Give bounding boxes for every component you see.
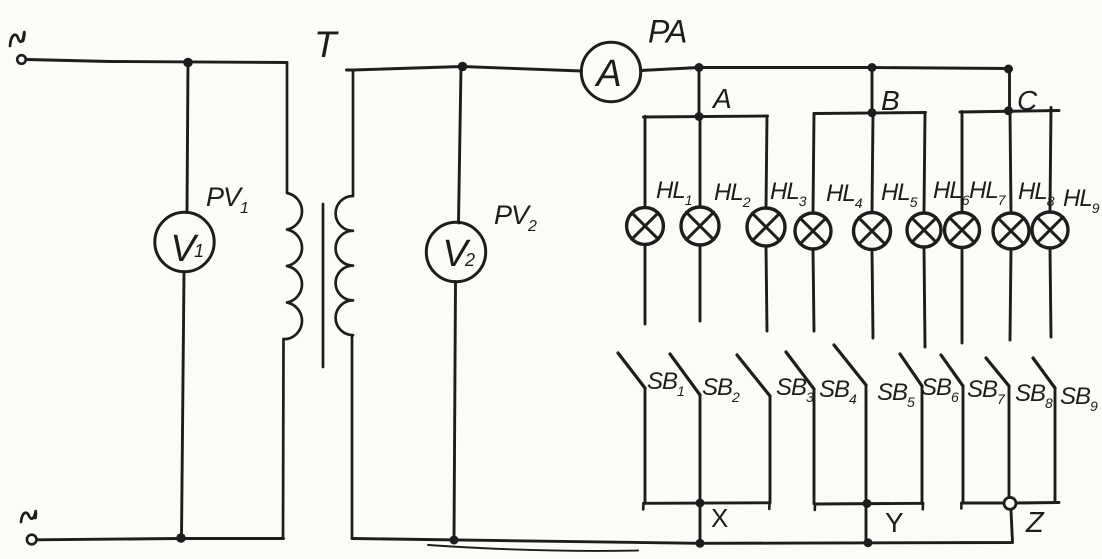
wire: switch SB4 lower lead <box>813 389 816 504</box>
wire: bus Y end ticks <box>815 503 923 510</box>
wire: bus X (SB1-SB3 commoning) <box>644 501 770 504</box>
svg-text:2: 2 <box>464 250 475 270</box>
lamp HL3 <box>747 208 785 246</box>
svg-text:Y: Y <box>885 507 904 538</box>
wire: lamp HL9 upper lead <box>1050 108 1051 213</box>
wire: PV2 upper lead <box>459 67 462 224</box>
wire: neutral return bottom bus <box>352 511 1013 544</box>
lamp HL8 <box>993 213 1029 249</box>
wire: lamp HL3 upper lead <box>766 116 767 208</box>
junction: PV2 tap on secondary top wire <box>458 62 468 72</box>
label SB9 <box>1060 383 1098 414</box>
lamp HL9 <box>1032 212 1068 248</box>
svg-text:A: A <box>594 53 621 95</box>
wire: PV1 lower lead <box>182 272 185 538</box>
wire: lamp HL4 lower lead to switch SB4 <box>813 249 814 331</box>
switch SB9 blade <box>1033 358 1055 388</box>
wire: phase A drop to lamp bus A <box>698 68 701 118</box>
junction: node X drop on bottom bus <box>696 539 705 548</box>
label SB8 <box>1015 380 1053 411</box>
wire: bottom-left return from terminal to transformer primary <box>37 539 284 540</box>
wire: bus Y (SB4-SB6 commoning) <box>815 502 923 506</box>
junction: node Y drop on bottom bus <box>864 538 873 547</box>
label HL5 <box>881 179 918 210</box>
label HL6 <box>933 177 970 208</box>
label HL9 <box>1063 185 1100 216</box>
lamp HL4 <box>795 213 831 249</box>
AC input terminal (bottom-left, ~) <box>21 511 37 544</box>
wire: switch SB6 lower lead <box>921 386 924 504</box>
wire: lamp HL5 upper lead <box>872 113 873 213</box>
label SB7 <box>967 376 1006 407</box>
junction: phase B on top bus <box>868 63 877 72</box>
label PV1 <box>206 182 248 217</box>
switch SB7 blade <box>941 355 963 386</box>
label PV2 <box>494 200 537 235</box>
svg-text:Z: Z <box>1025 507 1045 539</box>
label T (transformer) <box>314 24 339 65</box>
wire: lamp HL6 upper lead <box>924 113 925 213</box>
junction: PV2 on bottom bus <box>450 536 459 545</box>
wire: lamp bus B (HL4-HL6) <box>814 113 926 114</box>
transformer T secondary winding <box>336 70 353 539</box>
wire: switch SB7 lower lead <box>962 386 965 503</box>
svg-text:T: T <box>314 24 339 65</box>
wire: bus X end ticks <box>643 503 769 510</box>
wire: lamp HL5 lower lead to switch SB5 <box>872 250 873 339</box>
lamp HL7 <box>945 213 980 248</box>
wire: switch SB5 lower lead <box>865 385 868 543</box>
wire: switch SB8 lower lead <box>1008 386 1011 498</box>
wire: lamp bus C (HL7-HL9) <box>960 111 1059 113</box>
label SB6 <box>921 374 959 405</box>
wire: switch SB3 lower lead <box>769 396 772 503</box>
switch SB2 blade <box>670 354 700 395</box>
wire: phase C drop to lamp bus C <box>1008 69 1011 112</box>
lamp HL1 <box>627 208 664 245</box>
switch SB5 blade <box>834 345 866 385</box>
junction: PV1 on bottom-left return <box>176 533 186 543</box>
lamp HL6 <box>907 213 941 247</box>
label node B <box>881 85 899 116</box>
label node C <box>1017 85 1038 116</box>
wire: ammeter output to phase C corner <box>641 68 1010 71</box>
wire: lamp HL9 lower lead to switch SB9 <box>1050 248 1051 337</box>
label SB1 <box>647 368 684 399</box>
junction: bus A / HL2 <box>695 112 704 121</box>
wire: switch SB9 lower lead <box>1054 388 1057 503</box>
junction: bus C / HL8 <box>1004 106 1013 115</box>
ammeter PA (A) <box>581 42 640 101</box>
label SB5 <box>877 379 915 410</box>
wire: PV1 upper lead <box>187 63 188 213</box>
wire: lamp HL7 upper lead <box>961 112 964 213</box>
label SB2 <box>702 374 740 405</box>
wire: switch SB1 lower lead <box>644 388 647 503</box>
label HL8 <box>1018 178 1055 209</box>
wire: lamp HL2 lower lead to switch SB2 <box>699 245 702 321</box>
label node Y <box>885 507 904 538</box>
label node A <box>711 83 731 114</box>
label node X <box>711 503 728 533</box>
wire: lamp HL4 upper lead <box>813 114 814 214</box>
label HL2 <box>714 179 751 210</box>
label HL4 <box>826 180 863 211</box>
wire: lamp HL1 upper lead <box>644 117 647 208</box>
junction: phase A on top bus <box>695 63 704 72</box>
wire: lamp bus A (HL1-HL3) <box>644 116 768 117</box>
svg-text:X: X <box>711 503 728 533</box>
lamp HL2 <box>681 207 719 245</box>
junction: phase C corner on top bus <box>1004 65 1013 74</box>
label node Z <box>1025 507 1045 539</box>
wire: lamp HL7 lower lead to switch SB7 <box>961 248 964 344</box>
wire: phase B drop to lamp bus B <box>871 68 874 114</box>
label HL3 <box>770 178 807 209</box>
AC input terminal (top-left, ~) <box>10 32 26 64</box>
wire: PV2 lower lead <box>454 282 456 541</box>
svg-text:1: 1 <box>194 241 204 261</box>
voltmeter PV2 (V2) <box>426 222 485 281</box>
junction: PV1 tap on top feeder <box>183 58 193 68</box>
wire: lamp HL1 lower lead to switch SB1 <box>644 244 647 324</box>
switch SB4 blade <box>786 352 814 389</box>
switch SB6 blade <box>900 354 922 386</box>
junction: bus B / HL5 <box>868 108 877 117</box>
wire: lamp HL6 lower lead to switch SB6 <box>924 247 925 347</box>
label PA <box>648 14 686 50</box>
label HL1 <box>656 177 692 208</box>
transformer T core <box>322 204 325 367</box>
wire: bus Z (SB7-SB9 commoning) <box>962 501 1060 504</box>
wire: lamp HL8 lower lead to switch SB8 <box>1010 249 1011 340</box>
wire: lamp HL2 upper lead <box>699 117 702 208</box>
junction: node Y on bus <box>863 499 872 508</box>
wire: retrace stroke on bottom bus <box>428 545 638 551</box>
switch SB1 blade <box>618 353 645 388</box>
voltmeter PV1 (V1) <box>155 212 214 271</box>
wire: switch SB2 lower lead <box>699 395 702 543</box>
wire: bus Z end ticks <box>960 503 963 509</box>
wire: lamp HL8 upper lead <box>1010 111 1011 213</box>
transformer T primary winding <box>283 63 302 539</box>
wire: top-left feeder from terminal to transformer primary <box>27 60 288 63</box>
terminal: node Z open junction <box>1004 497 1016 509</box>
lamp HL5 <box>854 213 891 250</box>
wire: lamp HL3 lower lead to switch SB3 <box>766 246 767 331</box>
switch SB3 blade <box>737 355 770 396</box>
switch SB8 blade <box>986 358 1009 386</box>
wire: secondary top to ammeter <box>347 67 582 72</box>
junction: node X on bus <box>696 499 705 508</box>
svg-text:PA: PA <box>648 14 686 50</box>
label HL7 <box>969 177 1007 208</box>
svg-text:A: A <box>711 83 731 114</box>
label SB3 <box>776 374 814 405</box>
label SB4 <box>819 376 857 407</box>
